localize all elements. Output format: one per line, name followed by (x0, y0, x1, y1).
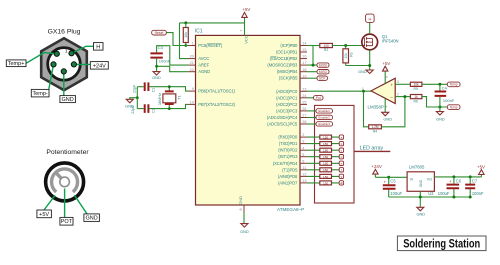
capacitor C5 100uF (388, 177, 390, 197)
capacitor C2 22pF (145, 104, 149, 113)
svg-text:11: 11 (302, 166, 306, 170)
svg-text:Pot: Pot (316, 96, 321, 100)
svg-text:Enable1: Enable1 (319, 109, 331, 113)
svg-text:GND: GND (85, 216, 97, 222)
svg-text:GND: GND (436, 117, 445, 122)
svg-text:4: 4 (302, 146, 304, 150)
resistor R1 10k (185, 23, 187, 46)
segment pad a (339, 135, 343, 139)
svg-text:100nF: 100nF (472, 191, 484, 196)
svg-text:AVCC: AVCC (198, 56, 209, 61)
label +5V (pot) (37, 210, 52, 218)
svg-text:150: 150 (323, 155, 328, 159)
svg-text:1: 1 (192, 42, 194, 46)
wire GND to pin (63, 71, 65, 95)
junction R1/+5V (184, 21, 187, 24)
svg-text:LM358P: LM358P (368, 105, 384, 110)
label Enable2 (316, 115, 333, 120)
LED segment resistor rows (150 ohm) R7-R14 (307, 135, 344, 140)
svg-text:100uF: 100uF (390, 191, 402, 196)
svg-text:(SCK)PB5: (SCK)PB5 (279, 76, 298, 81)
segment pad f (339, 168, 343, 172)
svg-text:Temp-: Temp- (32, 91, 47, 97)
Q1 drain wire to H (369, 22, 371, 34)
left pin numbers (190, 42, 194, 105)
svg-text:AGND: AGND (198, 69, 210, 74)
svg-text:GND: GND (61, 97, 73, 103)
wire +5V (pot) (44, 195, 55, 210)
wire R3 bottom to source node (346, 65, 370, 67)
svg-text:Temp: Temp (450, 105, 458, 109)
wire R6 jog to lower Temp row (422, 97, 447, 107)
potentiometer body (46, 163, 84, 201)
GX16 pin mid-right (71, 62, 76, 67)
svg-text:(ADC0)PC0: (ADC0)PC0 (276, 89, 298, 94)
wire pin23 to op-amp output (307, 90, 371, 92)
op-amp ground (384, 98, 386, 112)
wire pin6 row (307, 162, 339, 164)
svg-text:12: 12 (302, 173, 306, 177)
potentiometer shaft (60, 177, 70, 187)
svg-text:VCC: VCC (244, 35, 249, 44)
svg-text:16MHz: 16MHz (157, 93, 162, 105)
svg-text:VO: VO (427, 177, 432, 181)
ground below C4 (436, 112, 443, 116)
svg-text:+5V: +5V (382, 61, 390, 66)
wire +24V rail to regulator input (375, 176, 407, 178)
junction R3 top (344, 44, 347, 47)
svg-text:C3: C3 (158, 45, 164, 50)
label MOSI (317, 63, 329, 68)
wire Temp- to pin (49, 64, 54, 89)
wire pin14 row to R2 (307, 45, 320, 47)
svg-text:C4: C4 (442, 85, 448, 90)
svg-text:25: 25 (302, 101, 306, 105)
svg-text:28: 28 (302, 120, 306, 124)
svg-text:10k: 10k (184, 32, 188, 38)
junction left GND tap (136, 96, 139, 99)
junction pin17 (312, 64, 315, 67)
+5V supply arrow (regulator out) (480, 175, 482, 177)
+5V supply arrow (IC) (244, 18, 246, 23)
svg-text:(ADC1)PC1: (ADC1)PC1 (276, 95, 298, 100)
segment pad b (339, 141, 343, 145)
svg-text:(MOSI/OC2)PB3: (MOSI/OC2)PB3 (267, 63, 298, 68)
wire pin26 to Enable1 (307, 110, 316, 112)
label Reset (166, 33, 188, 46)
segment pad dp (339, 181, 343, 185)
wire pin11 row (307, 169, 339, 171)
svg-text:+24V: +24V (371, 164, 381, 169)
svg-text:GX16 Plug: GX16 Plug (48, 28, 81, 35)
GX16 connector hexagon body (41, 38, 87, 90)
svg-text:R2: R2 (324, 48, 328, 52)
LED array tag line (354, 150, 390, 152)
junction C3/AGND (155, 65, 158, 68)
svg-text:(TXD)PD1: (TXD)PD1 (279, 141, 298, 146)
GX16 pin 1 top-right (69, 51, 74, 56)
label H (94, 43, 104, 51)
label +24V (90, 62, 108, 70)
wire pin17 to gate row (307, 46, 317, 66)
svg-text:Enable3: Enable3 (319, 122, 331, 126)
svg-text:PB7(XTAL2/TOSC2): PB7(XTAL2/TOSC2) (198, 102, 235, 107)
junction C7 top (469, 175, 472, 178)
svg-text:(MISO)PB4: (MISO)PB4 (277, 69, 298, 74)
right pin numbers (302, 42, 306, 183)
svg-text:GND: GND (240, 229, 249, 234)
resistor 150 (dp) (320, 181, 332, 185)
svg-text:150: 150 (323, 175, 328, 179)
potentiometer track arc (52, 169, 78, 192)
svg-text:GND: GND (419, 179, 423, 187)
svg-text:VI: VI (410, 177, 413, 181)
wire R2 to gate (332, 45, 362, 47)
svg-text:H: H (368, 17, 371, 22)
crystal T1 16MHz (168, 87, 170, 109)
regulator GND pin down (419, 191, 421, 207)
segment pad e (339, 161, 343, 165)
svg-text:+5V: +5V (242, 7, 250, 12)
svg-text:18: 18 (302, 68, 306, 72)
op-amp U1 LM358 (371, 78, 395, 103)
svg-text:R6: R6 (414, 99, 418, 103)
wire pin28 to Enable3 (307, 123, 316, 125)
ground below IC (241, 224, 248, 228)
svg-text:13: 13 (302, 179, 306, 183)
svg-text:(RXD)PD0: (RXD)PD0 (278, 135, 298, 140)
svg-text:GND: GND (152, 75, 161, 80)
svg-text:22pF: 22pF (131, 104, 135, 113)
junction C6 bottom (452, 196, 455, 199)
svg-text:LED array: LED array (360, 145, 384, 151)
resistor R5 10k (410, 82, 422, 86)
svg-text:22: 22 (190, 68, 194, 72)
svg-text:GND: GND (416, 212, 425, 217)
svg-text:ATMEGA8–P: ATMEGA8–P (277, 207, 304, 212)
svg-text:150: 150 (323, 136, 328, 140)
label SCK (307, 77, 317, 79)
segment pad c (339, 148, 343, 152)
svg-text:10k: 10k (344, 53, 348, 59)
svg-text:5: 5 (302, 153, 304, 157)
ground at Q1 source (366, 70, 373, 74)
svg-text:Enable2: Enable2 (319, 116, 331, 120)
svg-text:PB6(XTAL1/TOSC1): PB6(XTAL1/TOSC1) (198, 89, 235, 94)
IC GND wire (pin 8) (243, 212, 245, 224)
svg-text:100nF: 100nF (159, 59, 171, 64)
wire pin2 row (307, 136, 339, 138)
svg-text:Potentiometer: Potentiometer (46, 149, 89, 156)
label H (heater) (366, 14, 375, 22)
junction C6 top (452, 175, 455, 178)
svg-text:Temp: Temp (450, 83, 458, 87)
wire AREF to C3 top (157, 46, 189, 65)
svg-text:C2: C2 (152, 108, 156, 113)
svg-text:20: 20 (190, 55, 194, 59)
label Enable1 (316, 109, 333, 114)
resistor 150 (d) (320, 155, 332, 159)
svg-text:26: 26 (302, 107, 306, 111)
junction source/R3/GND (368, 64, 371, 67)
svg-text:10: 10 (190, 101, 194, 105)
wire +24V to pin (74, 63, 90, 65)
svg-text:IRF540N: IRF540N (382, 39, 399, 44)
svg-text:3: 3 (397, 80, 399, 84)
svg-text:(SS/OC1B)PB2: (SS/OC1B)PB2 (270, 56, 298, 61)
svg-text:(ICP)PB0: (ICP)PB0 (280, 43, 298, 48)
svg-text:SCK: SCK (319, 77, 326, 81)
junction pin2/feedback (403, 95, 406, 98)
wire pin27 to Enable2 (307, 117, 316, 119)
junction C4 bottom (438, 106, 441, 109)
crystal top rail to pin 9 (137, 87, 188, 91)
svg-text:H: H (96, 44, 100, 50)
resistor 150 (c) (320, 148, 332, 152)
svg-text:C6: C6 (456, 179, 462, 184)
wire pin3 to R5 (395, 83, 410, 85)
resistor 150 (a) (320, 135, 332, 139)
svg-text:150: 150 (323, 149, 328, 153)
resistor 150 (f) (320, 168, 332, 172)
junction C7 bottom (469, 196, 472, 199)
junction regulator GND/rail (419, 196, 422, 199)
title box Soldering Station (397, 236, 486, 251)
segment pad d (339, 155, 343, 159)
svg-text:PC6(RESET): PC6(RESET) (198, 43, 223, 48)
label MISO (307, 71, 317, 73)
svg-text:6: 6 (302, 159, 304, 163)
svg-text:(OC1A)PB1: (OC1A)PB1 (276, 50, 298, 55)
resistor R6 1k (410, 95, 422, 99)
svg-text:MOSI: MOSI (319, 63, 327, 67)
svg-text:23: 23 (302, 87, 306, 91)
ground below C3 (153, 72, 160, 76)
segment pad g (339, 174, 343, 178)
resistor 150 (e) (320, 161, 332, 165)
label Pot (pin 24) (307, 97, 314, 99)
label GND (pot) (84, 214, 100, 222)
svg-text:24: 24 (302, 94, 306, 98)
right pin names (267, 43, 298, 185)
svg-text:C7: C7 (472, 179, 478, 184)
left pin stubs (189, 46, 196, 105)
svg-text:100nF: 100nF (443, 98, 455, 103)
svg-text:7: 7 (239, 30, 243, 32)
svg-text:Reset: Reset (155, 31, 164, 35)
svg-text:19: 19 (302, 74, 306, 78)
Q1 source wire (369, 50, 371, 70)
svg-text:(XCK/T0)PD4: (XCK/T0)PD4 (273, 161, 298, 166)
svg-text:(T1)PD5: (T1)PD5 (282, 167, 298, 172)
svg-text:C5: C5 (390, 179, 396, 184)
wire regulator output rail (434, 176, 481, 178)
svg-text:(ADC2)PC2: (ADC2)PC2 (276, 102, 298, 107)
wire Temp+ to pin (26, 53, 57, 64)
svg-text:1.2M: 1.2M (371, 125, 378, 129)
svg-text:−: − (390, 96, 393, 101)
svg-text:100uF: 100uF (438, 191, 450, 196)
svg-text:2: 2 (397, 93, 399, 97)
wire pin2 to R6 (395, 96, 410, 98)
resistor R3 10k (345, 46, 347, 66)
svg-text:27: 27 (302, 114, 306, 118)
capacitor C6 100uF (453, 177, 455, 197)
svg-text:1k: 1k (414, 95, 418, 99)
svg-text:LM7805: LM7805 (409, 164, 425, 169)
svg-text:(AIN1)PD7: (AIN1)PD7 (278, 180, 298, 185)
junction C5 top (387, 176, 390, 179)
feedback node at output (362, 90, 365, 93)
crystal left rail (136, 87, 138, 109)
voltage regulator U2 LM7805 (407, 172, 434, 192)
svg-text:3: 3 (302, 140, 304, 144)
label Temp (upper) (447, 82, 460, 87)
label Temp- (31, 89, 49, 97)
junction R1/pin1 (184, 44, 187, 47)
svg-text:R5: R5 (414, 87, 418, 91)
left pin names (198, 43, 235, 107)
svg-text:GND: GND (358, 69, 367, 74)
crystal bottom rail to pin 10 (137, 104, 188, 108)
svg-text:R3: R3 (349, 52, 353, 56)
svg-text:(ADC3)PC3: (ADC3)PC3 (276, 108, 298, 113)
svg-text:21: 21 (190, 61, 194, 65)
svg-text:(INT1)PD3: (INT1)PD3 (278, 154, 298, 159)
svg-text:Temp+: Temp+ (8, 61, 25, 67)
svg-text:AREF: AREF (198, 63, 209, 68)
wire pin12 row (307, 175, 339, 177)
ground below regulator (417, 207, 424, 211)
wire H to pin 1 (72, 46, 94, 53)
svg-text:+5V: +5V (39, 212, 49, 218)
label Temp+ (6, 60, 26, 67)
label POT (60, 217, 73, 225)
wire POT (wiper) (64, 189, 66, 218)
svg-text:16: 16 (302, 55, 306, 59)
svg-text:14: 14 (302, 42, 306, 46)
GX16 pin mid-left (51, 62, 56, 67)
svg-text:(ADC4/SDA)PC4: (ADC4/SDA)PC4 (267, 115, 298, 120)
op-amp +5V supply (384, 71, 386, 83)
LED array group box (315, 105, 355, 203)
GX16 pin top-left (54, 51, 59, 56)
GX16 pin bottom (61, 69, 66, 74)
MOSFET Q1 IRF540N (362, 34, 378, 50)
svg-text:150: 150 (323, 142, 328, 146)
wire GND (pot) (75, 195, 88, 214)
feedback wire down (364, 91, 369, 127)
label Enable3 (316, 122, 333, 127)
resistor R4 1.2M (369, 125, 382, 129)
svg-text:POT: POT (61, 219, 73, 225)
pin 8 stub (bottom) (243, 205, 245, 212)
label Temp (lower) (447, 105, 460, 110)
ground left of crystal (130, 98, 138, 100)
svg-text:+: + (390, 83, 393, 88)
feedback wire to pin2 (381, 97, 405, 127)
capacitor C7 100nF (469, 177, 471, 197)
svg-text:(AIN0)PD6: (AIN0)PD6 (278, 174, 298, 179)
GX16 connector face circle (48, 48, 81, 81)
svg-text:150: 150 (323, 181, 328, 185)
svg-text:(INT0)PD2: (INT0)PD2 (278, 148, 298, 153)
svg-text:17: 17 (302, 61, 306, 65)
wire VCC down (244, 23, 246, 36)
svg-text:+5V: +5V (477, 164, 485, 169)
svg-text:(ADC5/SCL)PC5: (ADC5/SCL)PC5 (267, 122, 298, 127)
svg-text:Soldering Station: Soldering Station (403, 236, 480, 250)
wire pin4 row (307, 149, 339, 151)
svg-text:15: 15 (302, 48, 306, 52)
wire AVCC from +5V rail (180, 23, 189, 59)
capacitor C1 22pF (145, 82, 149, 91)
svg-text:8: 8 (239, 208, 243, 210)
label GND (GX16) (60, 96, 76, 104)
svg-text:T1: T1 (177, 95, 182, 100)
svg-text:2: 2 (302, 133, 304, 137)
wire R5 to Temp (422, 83, 447, 85)
svg-text:IC1: IC1 (195, 29, 203, 35)
resistor 150 (b) (320, 142, 332, 146)
svg-text:9: 9 (192, 87, 194, 91)
svg-text:U2: U2 (428, 191, 434, 196)
wire pin5 row (307, 156, 339, 158)
svg-text:150: 150 (323, 162, 328, 166)
svg-text:R4: R4 (373, 130, 377, 134)
resistor 150 (g) (320, 174, 332, 178)
IC1 ATmega8 body (196, 35, 301, 205)
potentiometer wiper (55, 172, 65, 182)
junction C4 top (438, 83, 441, 86)
svg-text:GND: GND (383, 116, 392, 121)
svg-text:+24V: +24V (93, 63, 106, 69)
svg-text:150: 150 (323, 168, 328, 172)
right pin stubs (300, 46, 307, 183)
wire pin13 row (307, 182, 339, 184)
wire pin3 row (307, 143, 339, 145)
wire AGND to C3 bottom (157, 66, 189, 71)
resistor R2 100 (320, 43, 333, 47)
ground bottom rail (389, 196, 471, 198)
svg-text:GND: GND (238, 196, 243, 205)
+5V rail above IC (180, 22, 245, 24)
svg-text:C1: C1 (152, 87, 156, 92)
svg-text:22pF: 22pF (132, 84, 136, 93)
svg-text:MISO: MISO (319, 70, 328, 74)
